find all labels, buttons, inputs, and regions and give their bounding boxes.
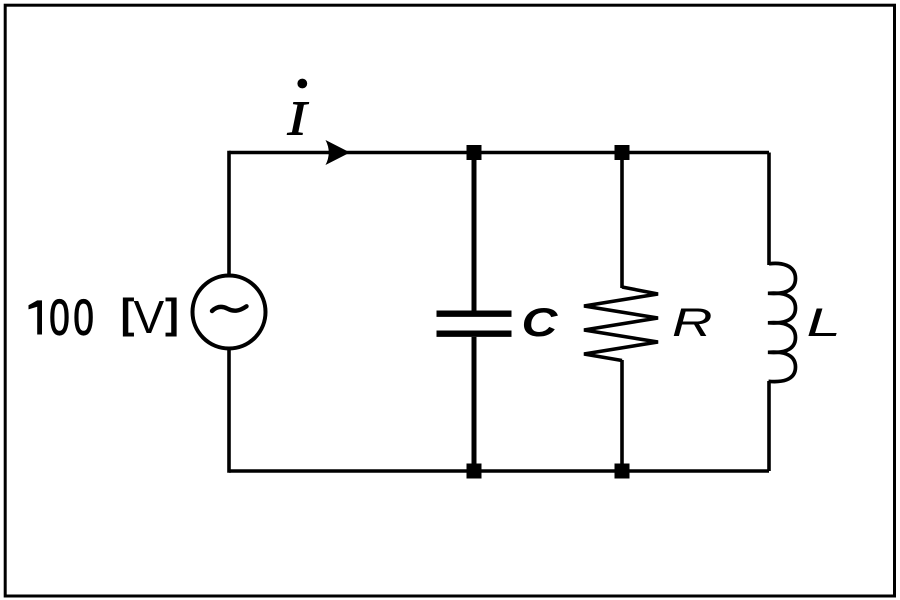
node top-left junction: [467, 145, 482, 160]
wire resistor lower: [620, 360, 624, 471]
label 100: digit 1: [29, 300, 43, 334]
svg-text:[: [: [121, 290, 135, 337]
svg-text:]: ]: [165, 290, 179, 337]
svg-text:0: 0: [73, 290, 93, 346]
dot above I: [297, 79, 307, 89]
capacitor C bottom plate: [437, 331, 512, 337]
wire left upper: [227, 151, 231, 276]
node bottom-left junction: [467, 464, 482, 479]
wire left lower: [227, 348, 231, 473]
inductor L coil: [768, 263, 796, 381]
wire inductor lower: [767, 381, 771, 471]
wire inductor upper: [767, 153, 771, 266]
current arrow: [326, 140, 351, 165]
wire capacitor upper: [472, 153, 477, 312]
svg-text:L: L: [807, 301, 841, 345]
node top-right junction: [615, 145, 630, 160]
ac source: [193, 276, 266, 349]
node bottom-right junction: [615, 464, 630, 479]
wire top: [229, 151, 769, 155]
svg-text:C: C: [522, 300, 559, 345]
sine symbol: [212, 306, 247, 311]
wire bottom: [229, 469, 769, 473]
resistor R zigzag: [584, 287, 658, 361]
wire resistor upper: [620, 153, 624, 289]
svg-text:R: R: [672, 301, 712, 345]
capacitor C top plate: [437, 311, 512, 317]
svg-text:0: 0: [49, 290, 69, 346]
svg-text:I: I: [286, 92, 308, 146]
svg-text:V: V: [134, 291, 165, 343]
wire capacitor lower: [472, 337, 477, 471]
